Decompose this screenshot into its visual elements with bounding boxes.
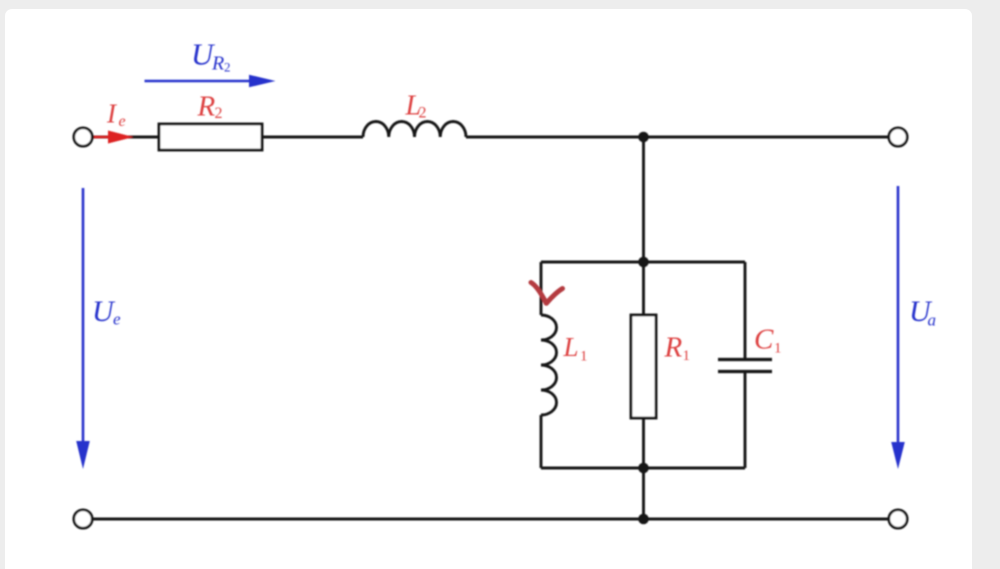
svg-text:L: L — [563, 332, 579, 362]
svg-text:1: 1 — [580, 349, 588, 365]
svg-text:e: e — [119, 113, 126, 130]
svg-text:C: C — [754, 324, 774, 356]
svg-text:e: e — [113, 310, 121, 329]
svg-text:R: R — [211, 53, 224, 75]
svg-text:R: R — [664, 332, 683, 364]
svg-text:2: 2 — [224, 60, 231, 75]
svg-text:1: 1 — [774, 341, 782, 357]
svg-text:R: R — [197, 91, 216, 123]
svg-text:2: 2 — [419, 105, 427, 122]
svg-text:2: 2 — [215, 105, 223, 122]
svg-text:1: 1 — [683, 348, 691, 364]
svg-text:a: a — [928, 311, 937, 330]
